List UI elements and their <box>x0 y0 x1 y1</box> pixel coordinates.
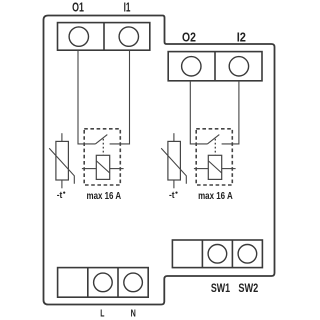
divider <box>214 52 216 81</box>
terminal circle SW1 <box>208 245 227 264</box>
divider <box>201 240 203 268</box>
contact blade <box>95 135 107 144</box>
terminal circle O2 <box>182 57 201 76</box>
terminal circle L <box>94 273 113 292</box>
contact blade 2 <box>207 135 219 144</box>
coil left lead <box>82 168 96 170</box>
thermistor 1 body <box>56 141 69 180</box>
channel 1 <box>49 50 129 188</box>
terminal block O2/I2 <box>168 52 262 81</box>
wire O2 to contact <box>190 81 207 144</box>
coil 2 right lead <box>222 168 236 170</box>
device outline <box>44 16 275 305</box>
divider <box>117 268 119 298</box>
dotted actuator link <box>102 139 104 155</box>
coil diagonal <box>96 161 109 173</box>
svg-text:I2: I2 <box>237 29 246 44</box>
coil 2 diagonal <box>208 161 221 173</box>
wire I2 to contact <box>222 81 239 144</box>
svg-text:max 16 A: max 16 A <box>198 190 233 202</box>
thermistor 1 stub bottom <box>61 180 63 188</box>
dotted actuator link 2 <box>214 139 216 155</box>
terminal circle SW2 <box>238 245 257 264</box>
wire O1 to contact <box>78 50 95 143</box>
terminal circle N <box>124 273 143 292</box>
svg-text:O2: O2 <box>182 29 196 44</box>
svg-text:I1: I1 <box>124 0 131 15</box>
divider <box>231 240 233 268</box>
channel 2 <box>161 81 239 189</box>
thermistor 1 diagonal <box>49 148 74 184</box>
svg-text:L: L <box>100 308 105 320</box>
dashed relay box 1 <box>84 129 120 185</box>
coil 2 left lead <box>194 168 208 170</box>
terminal block L/N <box>58 268 149 298</box>
thermistor 2 body <box>168 141 181 180</box>
svg-text:-t: -t <box>169 190 175 201</box>
coil right lead <box>110 168 124 170</box>
dashed relay box 2 <box>196 129 232 185</box>
terminal block SW1/SW2 <box>172 240 262 268</box>
terminal circle I2 <box>229 57 248 76</box>
terminal block O1/I1 <box>58 23 150 51</box>
thermistor 2 stub bottom <box>173 180 175 188</box>
terminal circle O1 <box>69 27 88 46</box>
relay coil K1 <box>96 155 109 179</box>
svg-text:-t: -t <box>57 190 63 201</box>
svg-text:max 16 A: max 16 A <box>87 190 122 202</box>
svg-text:SW1: SW1 <box>211 283 231 295</box>
thermistor 1 stub top <box>61 133 63 141</box>
svg-text:N: N <box>131 308 136 320</box>
svg-text:O1: O1 <box>72 0 84 15</box>
divider <box>103 23 105 51</box>
terminal circle I1 <box>119 27 138 46</box>
divider <box>87 268 89 298</box>
svg-text:SW2: SW2 <box>238 283 258 295</box>
thermistor 2 diagonal <box>161 148 186 184</box>
wire I1 to contact <box>110 50 130 143</box>
thermistor 2 stub top <box>173 133 175 141</box>
relay coil K2 <box>208 155 221 179</box>
